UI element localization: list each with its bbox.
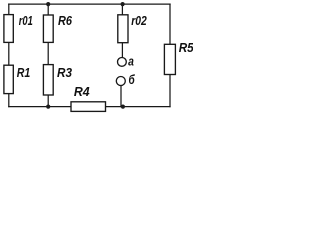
- resistor R6: [43, 15, 53, 42]
- svg-text:r01: r01: [19, 14, 33, 28]
- node dot top branch3: [121, 2, 125, 6]
- wire third branch upper (to terminal a): [121, 4, 123, 57]
- wire second branch: [47, 4, 49, 107]
- node dot bottom branch3: [121, 105, 125, 109]
- node dot top branch2: [46, 2, 50, 6]
- wire top rail: [9, 3, 170, 5]
- svg-text:r02: r02: [131, 14, 147, 28]
- svg-text:a: a: [128, 55, 134, 69]
- wire bottom rail: [9, 106, 170, 108]
- svg-text:б: б: [129, 73, 136, 87]
- svg-text:R1: R1: [17, 66, 31, 80]
- node dot bottom branch2: [46, 105, 50, 109]
- resistor R5: [164, 44, 175, 74]
- svg-text:R4: R4: [74, 85, 90, 99]
- resistor R4: [71, 102, 106, 112]
- wire third branch lower (from terminal b): [120, 86, 122, 107]
- wire left branch: [8, 4, 10, 107]
- resistor r01: [4, 15, 13, 43]
- svg-text:R5: R5: [179, 41, 193, 55]
- svg-text:R6: R6: [58, 14, 73, 28]
- resistor r02: [118, 15, 128, 43]
- resistor R1: [4, 65, 13, 93]
- svg-text:R3: R3: [57, 66, 72, 80]
- terminal a circle: [118, 58, 127, 67]
- terminal b circle: [116, 77, 125, 86]
- resistor R3: [43, 65, 53, 95]
- wire right branch: [169, 4, 171, 107]
